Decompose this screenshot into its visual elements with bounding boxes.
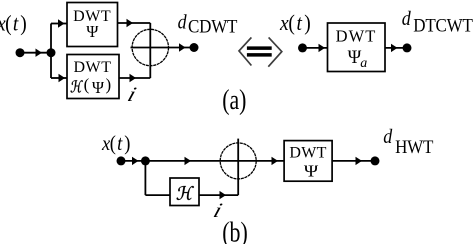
svg-text:DWT: DWT (73, 59, 111, 76)
summer plus horizontal and output wire (a) (131, 47, 195, 49)
node label i (a) (125, 83, 139, 106)
svg-text:): ) (106, 75, 112, 94)
node x(t) input label (a) right (279, 10, 311, 36)
wire input to junction (b) (121, 160, 145, 162)
svg-text:x(t): x(t) (0, 10, 27, 36)
box DWT psi (b) (284, 141, 332, 182)
box DWT H(Psi) (a) bottom (67, 55, 119, 99)
summer plus vertical (a) (149, 23, 151, 78)
summer plus vertical (b) (237, 139, 239, 196)
svg-text:HWT: HWT (395, 136, 433, 157)
caption (a) (222, 86, 246, 116)
summer circle (a) (132, 29, 168, 65)
svg-text:Ψ: Ψ (304, 161, 319, 180)
svg-text:CDWT: CDWT (188, 16, 238, 37)
node label d_DTCWT (402, 8, 411, 30)
wire bottom box to summer (119, 77, 150, 79)
wire into bottom DWT box (51, 77, 67, 79)
node output terminal dot d_DTCWT (403, 43, 412, 52)
svg-text:i: i (125, 83, 139, 106)
svg-text:x(t): x(t) (101, 132, 130, 155)
wire DWT box to output (b) (332, 160, 375, 162)
equivalence symbol equals bars (247, 46, 272, 50)
equivalence symbol left angle bracket (239, 37, 251, 65)
wire junction down (b) (144, 161, 146, 195)
svg-text:Ψ: Ψ (92, 78, 105, 97)
svg-text:a: a (360, 56, 367, 71)
node junction dot (a) left (47, 48, 56, 57)
node x(t) input label (b) (101, 132, 130, 155)
node label d_CDWT (178, 11, 187, 33)
script H glyph Hilbert (177, 186, 194, 200)
wire junction vertical split (a) left (50, 24, 52, 79)
wire main line through summer to DWT box (b) (145, 160, 284, 162)
node input terminal dot (a) left (16, 48, 25, 57)
box DWT Psi (a) top (67, 3, 118, 47)
svg-text:(: ( (84, 75, 90, 94)
svg-text:d: d (402, 8, 411, 30)
box H Hilbert (b) (170, 178, 199, 206)
svg-text:x(t): x(t) (279, 10, 311, 36)
wire input to DWT psi_a box (303, 47, 328, 49)
svg-text:Ψ: Ψ (86, 22, 99, 41)
node junction dot (b) (141, 156, 150, 165)
svg-text:d: d (178, 11, 187, 33)
svg-text:(a): (a) (222, 86, 246, 116)
wire DWT psi_a to output (385, 47, 407, 49)
node output terminal dot d_CDWT (190, 43, 199, 52)
node output terminal dot d_HWT (371, 156, 380, 165)
svg-text:DTCWT: DTCWT (413, 15, 473, 36)
caption (b) (222, 218, 247, 244)
box DWT psi_a (328, 23, 386, 72)
script H glyph in H(Psi) (71, 80, 83, 92)
node label i (b) (210, 199, 224, 222)
wire H box to summer (b) (199, 194, 238, 196)
wire into top DWT box (51, 23, 67, 25)
wire to H box (b) (145, 194, 170, 196)
summer circle (b) (220, 143, 256, 179)
node label d_HWT (383, 126, 392, 148)
node input terminal dot (a) right (298, 43, 307, 52)
svg-text:DWT: DWT (336, 27, 377, 46)
node x(t) input label (a) left (0, 10, 27, 36)
svg-text:d: d (383, 126, 392, 148)
svg-text:DWT: DWT (289, 145, 326, 162)
wire top box to summer (118, 22, 151, 24)
svg-text:(b): (b) (222, 218, 247, 244)
node input terminal dot (b) (117, 156, 126, 165)
wire input to junction (a) left (20, 52, 51, 54)
equivalence symbol right angle bracket (268, 37, 282, 66)
